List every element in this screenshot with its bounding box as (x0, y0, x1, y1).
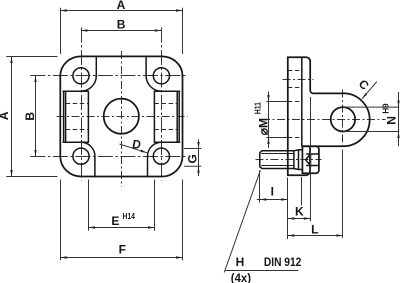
svg-text:A: A (117, 0, 126, 12)
svg-text:D: D (132, 137, 141, 151)
svg-text:F: F (119, 243, 126, 257)
svg-text:H9: H9 (381, 103, 390, 114)
svg-text:DIN 912: DIN 912 (264, 255, 302, 269)
svg-text:A: A (0, 111, 11, 120)
svg-text:L: L (311, 223, 318, 237)
svg-text:N: N (385, 116, 399, 125)
svg-text:E: E (111, 214, 119, 228)
svg-text:I: I (271, 185, 274, 199)
svg-text:H: H (236, 255, 245, 269)
svg-text:(4x): (4x) (231, 271, 251, 283)
svg-text:G: G (186, 154, 200, 163)
svg-text:B: B (117, 17, 126, 31)
svg-text:H14: H14 (123, 212, 136, 221)
svg-text:B: B (23, 112, 37, 121)
svg-text:H11: H11 (254, 102, 263, 115)
svg-text:K: K (295, 205, 304, 219)
svg-text:⌀M: ⌀M (257, 118, 271, 135)
